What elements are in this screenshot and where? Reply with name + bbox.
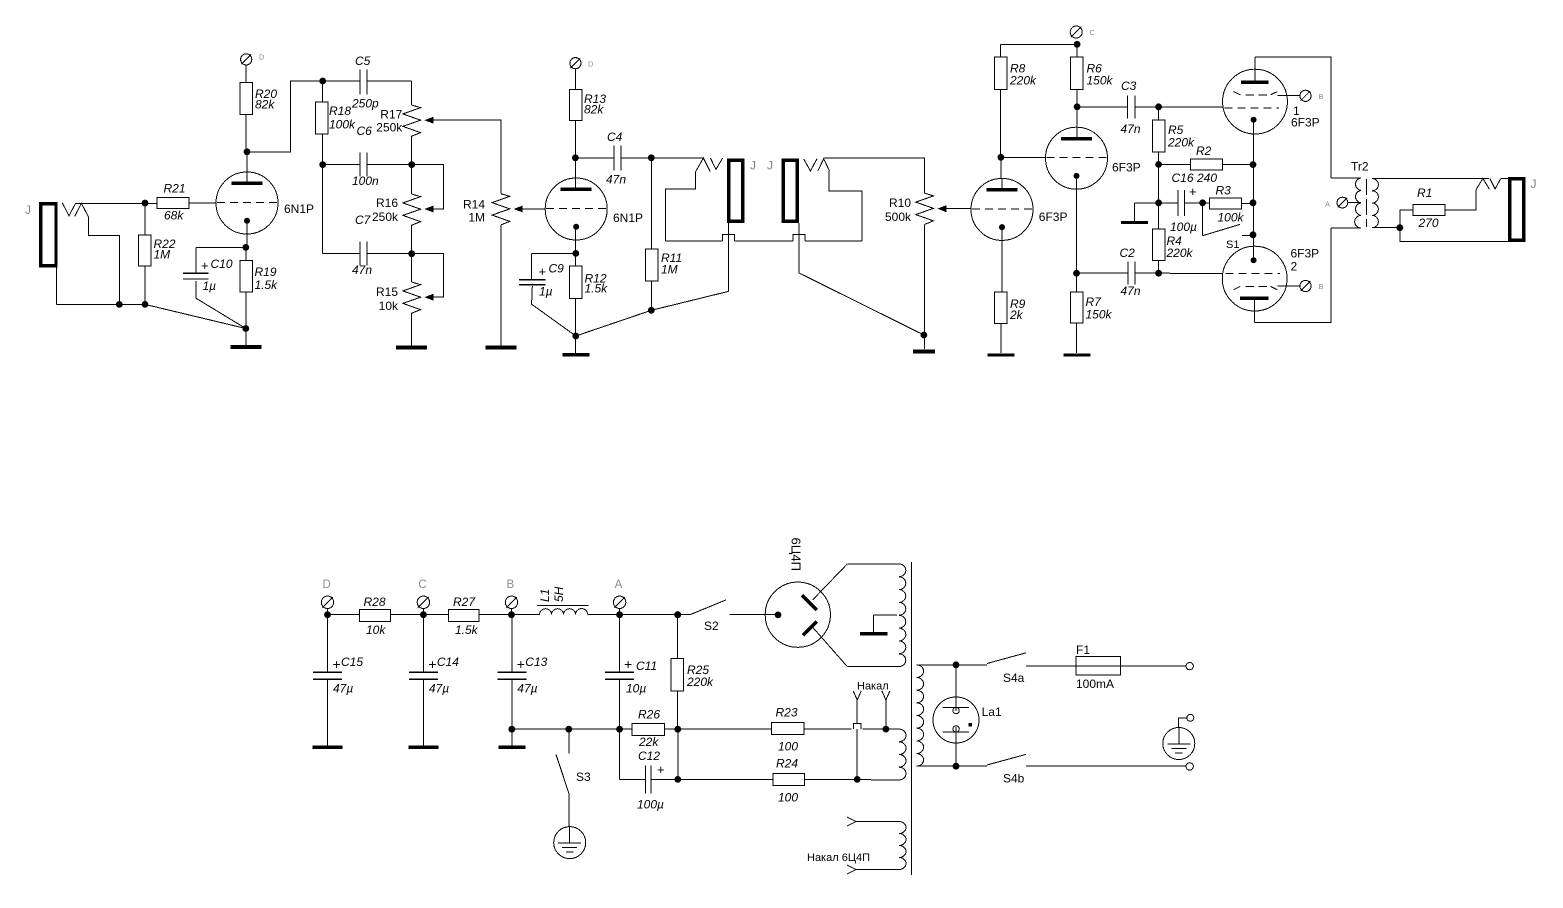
svg-text:S4a: S4a bbox=[1003, 671, 1025, 685]
svg-text:1.5k: 1.5k bbox=[585, 282, 609, 296]
svg-text:L1: L1 bbox=[538, 589, 552, 602]
svg-text:R16: R16 bbox=[376, 196, 398, 210]
svg-text:100k: 100k bbox=[1218, 211, 1245, 225]
svg-text:R27: R27 bbox=[453, 595, 476, 609]
svg-text:C14: C14 bbox=[437, 655, 459, 669]
svg-text:R19: R19 bbox=[255, 265, 277, 279]
svg-text:6Ц4П: 6Ц4П bbox=[789, 538, 804, 571]
svg-text:1M: 1M bbox=[468, 211, 485, 225]
svg-text:B: B bbox=[1319, 282, 1324, 291]
svg-text:A: A bbox=[615, 579, 623, 591]
svg-text:+: + bbox=[201, 258, 209, 273]
svg-text:1µ: 1µ bbox=[539, 285, 553, 299]
svg-text:+: + bbox=[624, 656, 632, 672]
svg-text:S4b: S4b bbox=[1003, 772, 1025, 786]
svg-text:B: B bbox=[507, 579, 515, 591]
svg-text:C11: C11 bbox=[636, 659, 657, 673]
svg-text:+: + bbox=[428, 656, 436, 672]
svg-text:R21: R21 bbox=[164, 182, 186, 196]
svg-text:150k: 150k bbox=[1087, 74, 1114, 88]
svg-text:C3: C3 bbox=[1121, 79, 1137, 93]
svg-text:6N1P: 6N1P bbox=[284, 202, 314, 216]
svg-text:82k: 82k bbox=[584, 103, 604, 117]
svg-text:R26: R26 bbox=[638, 708, 660, 722]
svg-text:La1: La1 bbox=[982, 705, 1002, 719]
svg-text:S2: S2 bbox=[704, 619, 719, 633]
svg-text:J: J bbox=[25, 203, 31, 217]
svg-text:C16: C16 bbox=[1172, 171, 1194, 185]
svg-text:5H: 5H bbox=[552, 586, 566, 602]
svg-text:1µ: 1µ bbox=[203, 279, 217, 293]
svg-text:D: D bbox=[588, 60, 594, 69]
svg-text:100: 100 bbox=[778, 791, 798, 805]
svg-text:100mA: 100mA bbox=[1076, 677, 1114, 691]
svg-text:10µ: 10µ bbox=[626, 682, 646, 696]
svg-text:C: C bbox=[1090, 28, 1096, 37]
svg-text:Накал 6Ц4П: Накал 6Ц4П bbox=[807, 852, 870, 864]
svg-text:J: J bbox=[767, 159, 773, 173]
svg-text:D: D bbox=[259, 53, 265, 62]
svg-text:C: C bbox=[418, 579, 426, 591]
svg-text:R3: R3 bbox=[1216, 184, 1232, 198]
svg-text:500k: 500k bbox=[885, 210, 912, 224]
svg-text:47n: 47n bbox=[1121, 122, 1141, 136]
svg-text:100: 100 bbox=[778, 740, 798, 754]
svg-text:2: 2 bbox=[1291, 260, 1298, 274]
svg-text:250k: 250k bbox=[372, 210, 399, 224]
svg-text:1M: 1M bbox=[154, 248, 171, 262]
svg-text:J: J bbox=[1531, 177, 1537, 191]
svg-text:22k: 22k bbox=[638, 735, 659, 749]
svg-text:+: + bbox=[539, 264, 547, 279]
svg-text:220k: 220k bbox=[686, 675, 714, 689]
svg-text:68k: 68k bbox=[164, 209, 184, 223]
svg-text:6F3P: 6F3P bbox=[1039, 210, 1068, 224]
svg-text:100k: 100k bbox=[329, 118, 356, 132]
svg-text:1M: 1M bbox=[661, 263, 678, 277]
svg-text:+: + bbox=[657, 762, 665, 777]
svg-text:A: A bbox=[1325, 200, 1330, 209]
svg-text:D: D bbox=[323, 579, 331, 591]
svg-text:R18: R18 bbox=[329, 104, 351, 118]
svg-text:C7: C7 bbox=[355, 213, 372, 227]
svg-text:47µ: 47µ bbox=[517, 682, 537, 696]
svg-text:47µ: 47µ bbox=[429, 682, 449, 696]
svg-text:250p: 250p bbox=[351, 97, 379, 111]
svg-text:R14: R14 bbox=[463, 198, 485, 212]
svg-text:250k: 250k bbox=[376, 121, 403, 135]
svg-text:C2: C2 bbox=[1120, 246, 1136, 260]
svg-text:220k: 220k bbox=[1167, 136, 1195, 150]
svg-text:Накал: Накал bbox=[857, 681, 889, 693]
svg-text:R17: R17 bbox=[380, 108, 402, 122]
svg-text:10k: 10k bbox=[366, 623, 386, 637]
svg-text:C13: C13 bbox=[525, 655, 547, 669]
svg-text:C5: C5 bbox=[355, 54, 371, 68]
svg-text:S1: S1 bbox=[1226, 239, 1239, 251]
svg-text:C6: C6 bbox=[357, 124, 373, 138]
svg-text:47n: 47n bbox=[606, 173, 626, 187]
svg-text:2k: 2k bbox=[1009, 308, 1024, 322]
svg-text:220k: 220k bbox=[1166, 246, 1194, 260]
svg-text:6F3P: 6F3P bbox=[1112, 160, 1141, 174]
svg-text:C4: C4 bbox=[607, 130, 623, 144]
svg-text:1.5k: 1.5k bbox=[455, 623, 479, 637]
svg-text:S3: S3 bbox=[576, 770, 591, 784]
svg-text:+: + bbox=[1189, 184, 1197, 199]
svg-text:R28: R28 bbox=[364, 595, 386, 609]
svg-text:C10: C10 bbox=[211, 257, 233, 271]
svg-text:47µ: 47µ bbox=[333, 682, 353, 696]
svg-text:C12: C12 bbox=[638, 749, 660, 763]
svg-text:270: 270 bbox=[1418, 216, 1439, 230]
svg-text:150k: 150k bbox=[1086, 308, 1113, 322]
svg-text:Tr2: Tr2 bbox=[1351, 160, 1369, 174]
svg-text:R23: R23 bbox=[776, 706, 798, 720]
svg-text:47n: 47n bbox=[1121, 284, 1141, 298]
svg-text:R10: R10 bbox=[889, 196, 911, 210]
svg-text:100n: 100n bbox=[352, 174, 379, 188]
svg-text:100µ: 100µ bbox=[1170, 220, 1197, 234]
svg-text:J: J bbox=[750, 159, 756, 173]
svg-text:F1: F1 bbox=[1076, 643, 1090, 657]
svg-text:240: 240 bbox=[1196, 171, 1217, 185]
svg-text:B: B bbox=[1319, 92, 1324, 101]
svg-text:6N1P: 6N1P bbox=[613, 211, 643, 225]
svg-text:6F3P: 6F3P bbox=[1291, 116, 1320, 130]
svg-text:+: + bbox=[517, 656, 525, 672]
svg-text:R24: R24 bbox=[776, 757, 798, 771]
svg-text:R15: R15 bbox=[376, 285, 398, 299]
svg-text:10k: 10k bbox=[379, 299, 399, 313]
svg-text:R2: R2 bbox=[1196, 144, 1212, 158]
svg-text:82k: 82k bbox=[255, 98, 275, 112]
svg-text:220k: 220k bbox=[1009, 74, 1037, 88]
svg-text:47n: 47n bbox=[352, 263, 372, 277]
svg-text:100µ: 100µ bbox=[637, 798, 664, 812]
svg-text:C9: C9 bbox=[549, 262, 565, 276]
svg-text:1.5k: 1.5k bbox=[255, 278, 279, 292]
svg-text:C15: C15 bbox=[341, 655, 363, 669]
svg-text:R1: R1 bbox=[1417, 186, 1432, 200]
svg-text:+: + bbox=[333, 656, 341, 672]
